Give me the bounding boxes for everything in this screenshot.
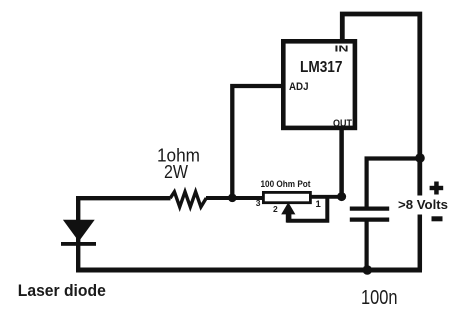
svg-text:Laser diode: Laser diode <box>18 282 106 300</box>
svg-text:>8 Volts: >8 Volts <box>398 198 448 212</box>
svg-text:OUT: OUT <box>333 119 352 130</box>
svg-text:2W: 2W <box>164 162 188 182</box>
svg-text:100 Ohm Pot: 100 Ohm Pot <box>261 179 311 189</box>
svg-text:LM317: LM317 <box>300 59 343 76</box>
svg-text:100n: 100n <box>361 287 398 309</box>
svg-text:3: 3 <box>256 198 261 208</box>
svg-text:1: 1 <box>316 199 322 210</box>
svg-text:IN: IN <box>335 44 349 53</box>
svg-text:ADJ: ADJ <box>289 81 309 93</box>
svg-text:2: 2 <box>273 204 278 214</box>
